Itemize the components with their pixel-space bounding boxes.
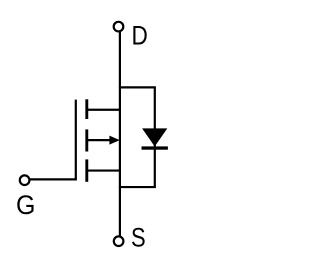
wire drain vertical (D to S bus) (119, 32, 121, 236)
wire body-diode branch loop (119, 87, 155, 187)
transistor Q1 channel bar top (drain) (85, 99, 88, 119)
terminal D (114, 22, 124, 32)
wire gate lead and gate electrode plate (30, 100, 76, 180)
terminal S (114, 236, 124, 246)
svg-text:G: G (16, 190, 35, 220)
svg-text:S: S (131, 222, 146, 252)
transistor Q1 channel bar bottom (source) (85, 159, 88, 181)
svg-text:D: D (132, 21, 148, 51)
terminal G (20, 175, 30, 185)
wire source lead (87, 169, 122, 171)
transistor Q1 body arrow head (109, 136, 119, 145)
diode D1 anode triangle (142, 128, 167, 146)
transistor Q1 channel bar middle (body) (85, 129, 88, 151)
diode D1 cathode bar (142, 146, 168, 149)
transistor Q1 body arrow shaft (88, 139, 111, 141)
wire drain lead (87, 109, 122, 111)
